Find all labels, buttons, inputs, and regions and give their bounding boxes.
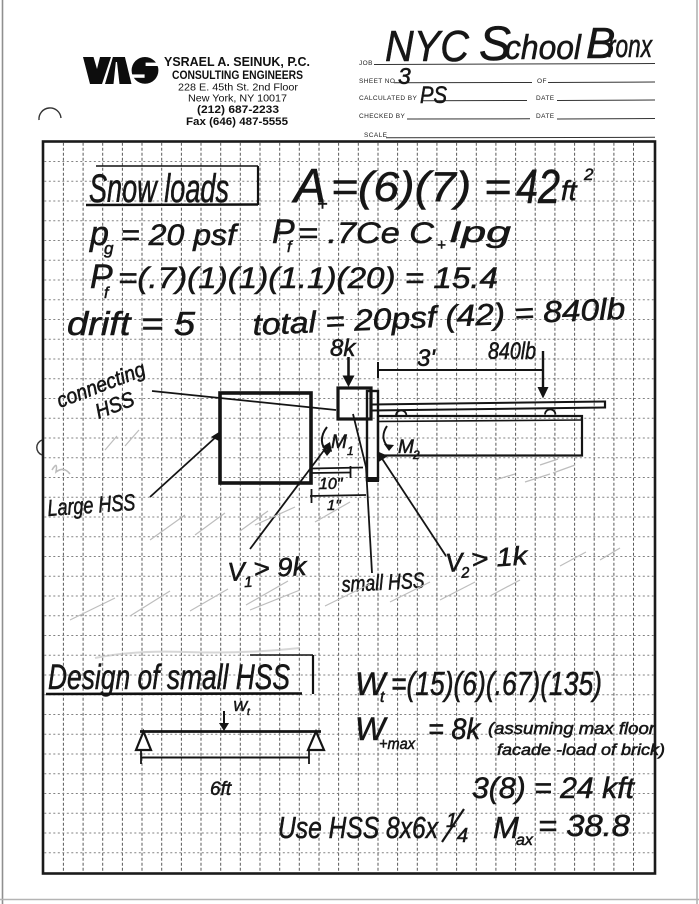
svg-text:42: 42	[516, 161, 560, 214]
svg-text:1: 1	[347, 444, 354, 458]
svg-text:3(8) = 24 kft: 3(8) = 24 kft	[472, 772, 636, 805]
svg-text:8k: 8k	[330, 335, 357, 362]
svg-text:DATE: DATE	[536, 95, 555, 102]
svg-text:> 1k: > 1k	[470, 540, 530, 574]
svg-text:PS: PS	[420, 82, 447, 109]
svg-text:6ft: 6ft	[210, 779, 232, 800]
svg-text:SHEET NO.: SHEET NO.	[359, 78, 398, 85]
svg-text:3: 3	[398, 63, 411, 89]
svg-text:840lb: 840lb	[488, 338, 536, 365]
svg-text:+max: +max	[379, 736, 416, 753]
svg-text:t: t	[380, 689, 385, 706]
svg-text:JOB: JOB	[359, 60, 373, 67]
svg-text:CONSULTING ENGINEERS: CONSULTING ENGINEERS	[172, 70, 303, 82]
svg-text:=(.7)(1)(1)(1.1)(20) = 15.4: =(.7)(1)(1)(1.1)(20) = 15.4	[118, 262, 498, 295]
svg-text:3': 3'	[417, 345, 436, 372]
svg-text:ax: ax	[516, 832, 534, 849]
svg-text:g: g	[104, 239, 114, 258]
svg-text:4: 4	[457, 825, 468, 847]
svg-text:1: 1	[244, 574, 253, 591]
svg-text:ronx: ronx	[608, 28, 653, 64]
svg-text:> 9k: > 9k	[253, 551, 310, 584]
svg-text:YSRAEL A. SEINUK, P.C.: YSRAEL A. SEINUK, P.C.	[164, 54, 310, 69]
svg-text:Design of small HSS: Design of small HSS	[48, 658, 290, 697]
svg-text:New York, NY 10017: New York, NY 10017	[188, 93, 287, 105]
svg-text:Fax (646) 487-5555: Fax (646) 487-5555	[186, 116, 288, 128]
svg-text:P: P	[272, 213, 295, 251]
svg-text:SCALE: SCALE	[364, 132, 388, 139]
svg-text:+: +	[437, 237, 446, 254]
svg-text:DATE: DATE	[536, 113, 555, 120]
svg-text:(212) 687-2233: (212) 687-2233	[197, 104, 279, 116]
svg-text:OF: OF	[537, 78, 547, 85]
svg-text:CHECKED BY: CHECKED BY	[359, 113, 406, 120]
svg-text:2: 2	[460, 564, 471, 582]
svg-text:facade -load of brick): facade -load of brick)	[497, 742, 665, 759]
svg-text:drift = 5: drift = 5	[67, 305, 196, 342]
svg-text:Ipg: Ipg	[449, 216, 511, 249]
svg-text:2: 2	[412, 448, 420, 462]
svg-text:+: +	[317, 194, 328, 214]
svg-text:= 8k: = 8k	[428, 713, 482, 746]
svg-text:chool: chool	[505, 29, 582, 67]
svg-text:Use HSS 8x6x: Use HSS 8x6x	[278, 810, 439, 845]
svg-text:P: P	[90, 258, 113, 296]
svg-text:= 20 psf: = 20 psf	[121, 219, 239, 252]
svg-text:= .7Ce C: = .7Ce C	[298, 217, 434, 250]
svg-text:10": 10"	[319, 476, 344, 493]
svg-text:ft: ft	[561, 175, 578, 206]
svg-text:2: 2	[583, 165, 594, 184]
svg-text:M: M	[398, 437, 414, 458]
svg-text:=(15)(6)(.67)(135): =(15)(6)(.67)(135)	[391, 665, 602, 702]
svg-text:M: M	[331, 432, 347, 453]
svg-text:CALCULATED BY: CALCULATED BY	[359, 95, 417, 102]
svg-text:= 38.8: = 38.8	[538, 808, 631, 843]
svg-text:=(6)(7) =: =(6)(7) =	[331, 163, 511, 210]
svg-text:(assuming max floor: (assuming max floor	[488, 719, 656, 738]
